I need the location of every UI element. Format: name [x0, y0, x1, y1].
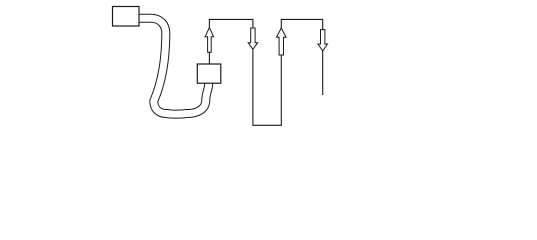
cable (thick tube from box1 to box2) — [137, 18, 209, 114]
wire (serpentine thin line) — [209, 19, 322, 125]
down arrow A2 — [248, 28, 258, 49]
up arrow A3 — [277, 28, 287, 55]
up arrow A1 — [205, 28, 214, 53]
box 1 (top-left device) — [113, 7, 140, 27]
down arrow A4 — [318, 30, 328, 51]
box 2 (probe device) — [197, 64, 221, 83]
